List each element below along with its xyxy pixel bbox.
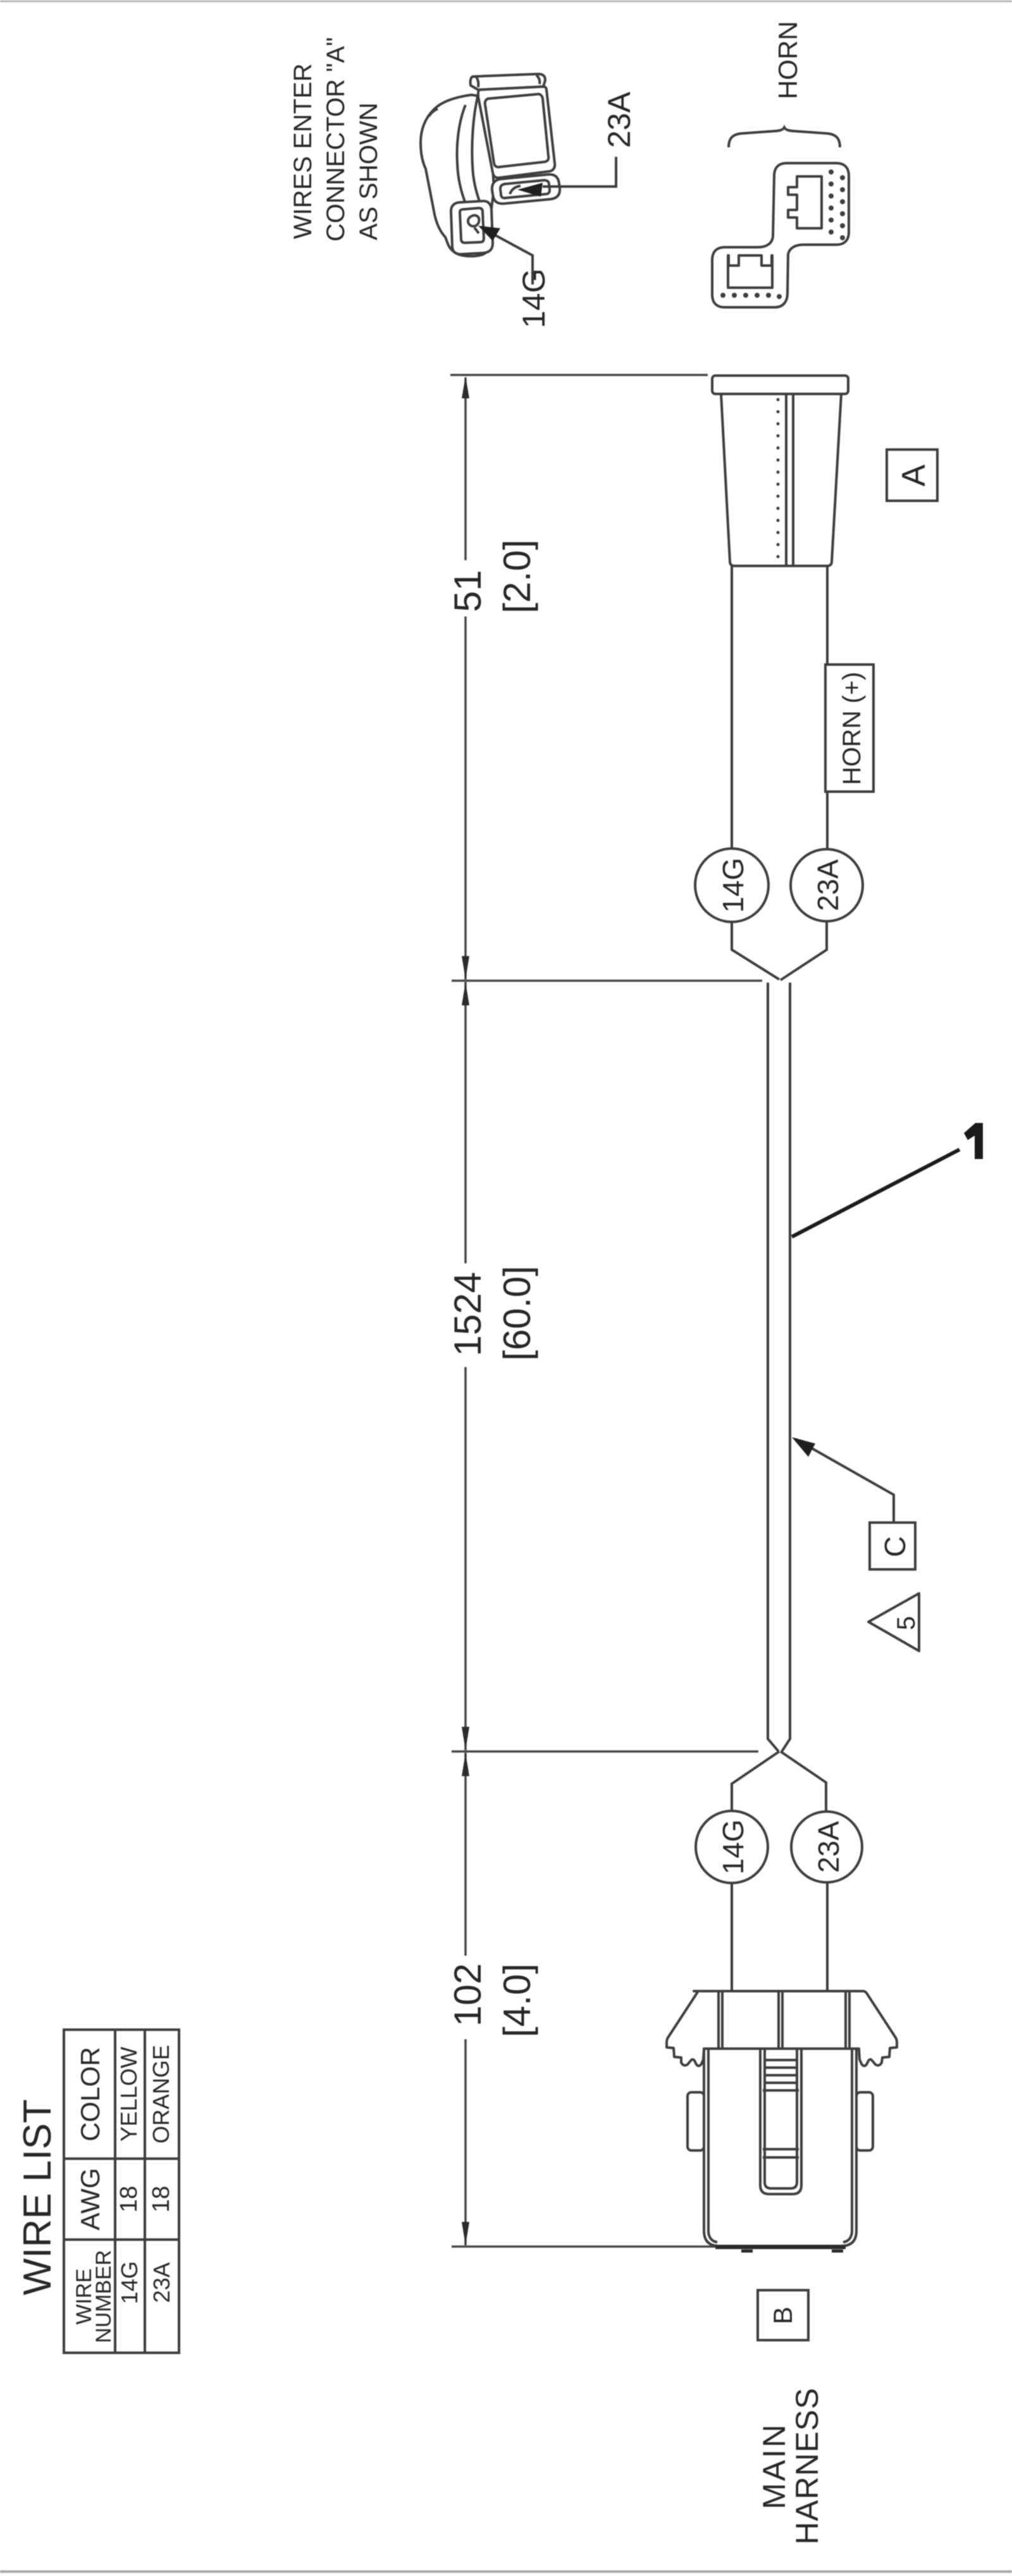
horn connector outline: [712, 163, 849, 307]
split V from cable to wires: [732, 1751, 779, 1811]
iso side face window: [485, 94, 549, 167]
svg-text:NUMBER: NUMBER: [92, 2250, 116, 2343]
svg-text:14G: 14G: [717, 858, 750, 913]
connector A side view body: [721, 394, 841, 566]
horn connector dotted wire face (bottom): [720, 293, 782, 299]
svg-text:[2.0]: [2.0]: [496, 539, 538, 613]
connector B body inner edge lines: [708, 2049, 717, 2242]
iso lower socket opening: [460, 208, 484, 243]
connector B left latch tab: [688, 2092, 704, 2150]
svg-text:A: A: [896, 464, 932, 486]
iso shell corner arc: [429, 109, 438, 116]
wire 23A (lower): [826, 1882, 829, 1990]
iso upper socket opening: [500, 180, 550, 198]
iso top band corner marks: [476, 75, 540, 87]
svg-text:HORN: HORN: [773, 21, 803, 99]
flag note triangle 5: [868, 1593, 919, 1651]
leader to item 1: [792, 1150, 960, 1237]
iso rear shell body: [421, 95, 494, 256]
iso side face outer: [478, 87, 555, 178]
svg-text:B: B: [768, 2307, 798, 2324]
svg-text:AS SHOWN: AS SHOWN: [355, 102, 383, 240]
extension line at harness split point: [452, 1750, 758, 1753]
svg-text:CONNECTOR "A": CONNECTOR "A": [322, 37, 350, 242]
label C box: [870, 1523, 915, 1569]
splice circle 14G (lower): [696, 1811, 768, 1883]
connector A side view cap: [712, 376, 848, 394]
svg-text:YELLOW: YELLOW: [116, 2047, 142, 2142]
label B box: [758, 2290, 808, 2340]
wire 23A (upper): [826, 566, 829, 850]
svg-text:[4.0]: [4.0]: [496, 1963, 538, 2037]
brace for HORN label: [729, 128, 840, 148]
label 14G with leader: [478, 226, 552, 328]
svg-text:MAIN: MAIN: [756, 2423, 792, 2510]
connector B wire seal lines: [765, 2059, 797, 2061]
connector B main body: [704, 2049, 856, 2246]
svg-text:14G: 14G: [116, 2261, 142, 2304]
svg-text:C: C: [879, 1536, 911, 1557]
extension line at harness merge point: [452, 979, 762, 982]
wire 14G (lower): [731, 1883, 733, 1990]
terminal mark in upper socket: [510, 186, 521, 194]
iso wire-entry lower socket (14G): [451, 201, 493, 254]
note: WIRES ENTER CONNECTOR "A" AS SHOWN: [289, 37, 383, 242]
horn connector upper socket opening: [788, 176, 822, 228]
iso shell step line 1: [457, 105, 466, 205]
splice circle 23A (lower): [791, 1812, 862, 1882]
iso shell step line 2: [472, 97, 479, 201]
splice circle 14G (upper): [695, 849, 768, 922]
dimension line 51 [2.0]: [447, 376, 538, 979]
label 23A with leader: [517, 91, 637, 197]
label A box: [887, 450, 937, 501]
svg-text:23A: 23A: [812, 1821, 845, 1873]
iso wire-entry upper socket (23A): [492, 175, 560, 204]
balloon number 1: [964, 1123, 983, 1159]
terminal mark in lower socket: [468, 216, 479, 233]
connector A body inner lines: [785, 394, 787, 566]
wire list table: [64, 2030, 179, 2353]
svg-text:WIRE LIST: WIRE LIST: [16, 2099, 59, 2295]
svg-text:ORANGE: ORANGE: [148, 2045, 174, 2144]
sheet bottom border: [0, 2570, 1012, 2573]
connector B right latch tab: [856, 2092, 873, 2150]
horn connector lower socket opening: [728, 255, 772, 288]
connector B center slot: [760, 2049, 801, 2194]
svg-text:23A: 23A: [149, 2262, 175, 2303]
svg-text:HARNESS: HARNESS: [789, 2388, 825, 2545]
svg-text:18: 18: [116, 2186, 142, 2212]
svg-text:1524: 1524: [447, 1272, 489, 1356]
svg-text:COLOR: COLOR: [75, 2047, 105, 2141]
svg-text:HORN (+): HORN (+): [838, 672, 866, 785]
svg-text:WIRES ENTER: WIRES ENTER: [289, 63, 317, 239]
iso top face band: [471, 74, 545, 90]
svg-text:5: 5: [892, 1616, 920, 1630]
connector B bottom edge: [715, 2245, 846, 2249]
connector A isometric detail view: [421, 74, 560, 256]
cable (item 1): [768, 983, 779, 1751]
horn connector dotted wire face (right): [829, 169, 845, 240]
connector B wing housing: [667, 1991, 897, 2066]
svg-text:23A: 23A: [602, 91, 637, 148]
svg-text:14G: 14G: [717, 1820, 750, 1875]
extension line at connector A top: [450, 374, 708, 376]
leader arrow C to cable: [796, 1439, 894, 1524]
splice circle 23A (upper): [791, 849, 863, 921]
svg-text:102: 102: [447, 1963, 489, 2027]
svg-text:[60.0]: [60.0]: [496, 1266, 538, 1361]
svg-text:AWG: AWG: [75, 2168, 105, 2231]
svg-text:51: 51: [447, 570, 489, 612]
connector A body dotted line: [777, 400, 780, 561]
sheet top border: [0, 1, 1012, 3]
dimension line 1524 [60.0]: [447, 982, 538, 1750]
wire 14G (upper): [731, 566, 733, 849]
HORN (+) label box: [825, 665, 873, 792]
svg-text:18: 18: [148, 2186, 175, 2212]
connector B cavity divider lines: [717, 1992, 720, 2047]
svg-text:23A: 23A: [811, 859, 844, 911]
extension line at connector B bottom: [452, 2245, 715, 2248]
horn mating connector detail (S-shaped housing): [712, 163, 849, 307]
dimension line 102 [4.0]: [447, 1753, 538, 2245]
merge V wires into cable: [732, 922, 779, 979]
connector B (main harness side): [667, 1991, 897, 2251]
